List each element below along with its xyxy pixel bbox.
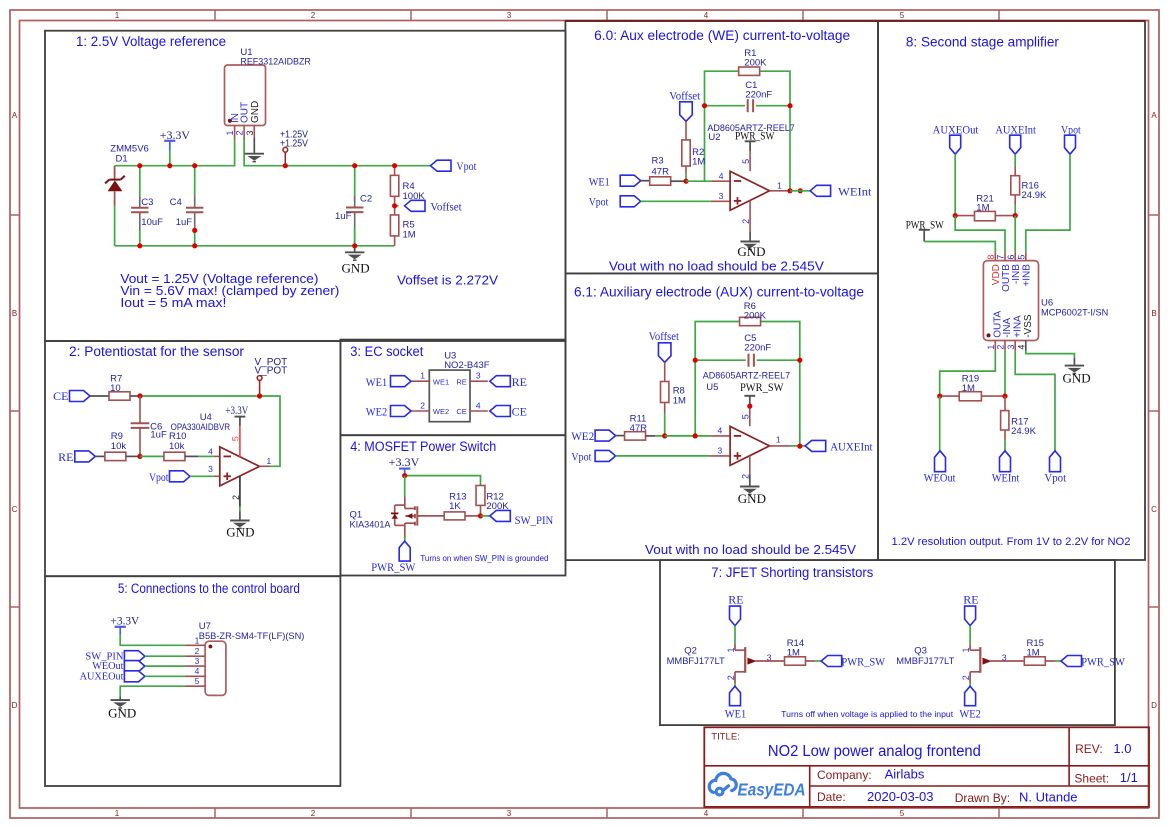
svg-text:C: C (12, 505, 18, 514)
net flag WEOut section5 (124, 661, 144, 672)
net flag SW_PIN section5 (124, 651, 144, 662)
wire WE2 to R11 (616, 435, 625, 437)
svg-text:220nF: 220nF (745, 90, 772, 101)
net flag PWR_SW 15 (1061, 656, 1082, 667)
svg-text:Voffset: Voffset (649, 329, 680, 343)
net flag AUXEInt section8 (1010, 135, 1021, 154)
title block column divider REV (1068, 727, 1070, 786)
svg-text:Vpot: Vpot (149, 470, 169, 484)
svg-text:+INA: +INA (1012, 315, 1023, 338)
svg-text:PWR_SW: PWR_SW (740, 380, 784, 394)
svg-text:4: 4 (719, 171, 724, 181)
net flag RE (75, 451, 96, 462)
svg-text:MMBFJ177LT: MMBFJ177LT (896, 656, 954, 667)
svg-text:Vpot: Vpot (1061, 123, 1081, 137)
svg-text:3: 3 (245, 130, 255, 135)
U3 pin 2 stub (411, 410, 429, 412)
svg-text:-INB: -INB (1011, 264, 1022, 284)
U4 output pin 1 (260, 465, 271, 467)
resistor 1M (785, 657, 806, 665)
svg-text:1.0: 1.0 (1113, 741, 1131, 756)
wire Vpot to op-amp pin3 (641, 200, 711, 202)
svg-text:+3.3V: +3.3V (225, 405, 248, 417)
U6 top pin stubs (994, 252, 996, 260)
net flag RE 15 (965, 606, 976, 626)
wire AUXEOut down (954, 154, 956, 215)
net flag Vpot section 6.1 (595, 450, 616, 461)
connector U7 body (205, 641, 226, 695)
svg-text:47R: 47R (630, 423, 648, 434)
svg-text:D: D (12, 701, 18, 710)
svg-text:1/1: 1/1 (1120, 770, 1138, 785)
svg-text:2: 2 (996, 345, 1006, 350)
resistor R7 10 (109, 392, 130, 400)
svg-text:1: 1 (726, 647, 736, 652)
svg-text:Vpot: Vpot (571, 449, 592, 463)
svg-text:N. Utande: N. Utande (1019, 789, 1078, 804)
wire bottom rail (115, 245, 395, 247)
MOSFET Q1 KIA3401A (404, 497, 406, 509)
svg-text:RE: RE (456, 377, 466, 386)
svg-text:Iout = 5 mA max!: Iout = 5 mA max! (120, 295, 226, 310)
resistor R6 200K (740, 317, 761, 325)
svg-text:WE1: WE1 (366, 375, 387, 389)
svg-text:CE: CE (512, 405, 527, 419)
wire +3.3V to R12 (405, 476, 481, 486)
wire +3.3V down to Q1 drain (404, 476, 406, 497)
JFET gate arrow (983, 658, 992, 665)
svg-text:GND: GND (738, 491, 766, 506)
net flag Vpot section 6.0 (620, 196, 641, 207)
op-amp U2 AD8605 triangle (730, 171, 769, 210)
feedback wire C5 (695, 359, 746, 361)
svg-text:24.9K: 24.9K (1011, 426, 1036, 437)
svg-text:B: B (1151, 309, 1156, 318)
svg-text:1: 1 (267, 456, 272, 466)
wire junction to op-amp pin4 (686, 180, 711, 182)
svg-text:24.9K: 24.9K (1022, 190, 1047, 201)
title block outline (704, 727, 1149, 807)
title block logo cell divider (809, 766, 811, 807)
svg-text:6: 6 (1006, 255, 1016, 260)
svg-text:1: 1 (225, 130, 235, 135)
svg-text:WE1: WE1 (589, 174, 610, 188)
svg-text:1M: 1M (692, 157, 705, 168)
svg-text:10k: 10k (169, 441, 185, 452)
wire resistor to PWR_SW flag (1045, 660, 1055, 662)
svg-text:2020-03-03: 2020-03-03 (867, 789, 934, 804)
svg-text:Sheet:: Sheet: (1074, 771, 1109, 785)
title block row divider 2 (810, 785, 1149, 787)
wire top rail right segment to Vpot (244, 139, 430, 166)
svg-text:3: 3 (718, 445, 723, 455)
resistor R19 1M (940, 395, 960, 397)
wire top net to feedback corner (140, 396, 280, 466)
svg-text:1: 1 (776, 434, 781, 444)
svg-text:REV:: REV: (1075, 742, 1103, 756)
feedback wire R1 top (705, 71, 739, 106)
svg-text:6.0: Aux electrode (WE) curren: 6.0: Aux electrode (WE) current-to-volta… (594, 28, 850, 43)
svg-text:4: MOSFET Power Switch: 4: MOSFET Power Switch (350, 439, 496, 454)
Q1 body diode (391, 512, 398, 514)
svg-text:Voffset: Voffset (430, 200, 462, 214)
svg-text:3: 3 (719, 191, 724, 201)
svg-text:Turns on when SW_PIN is ground: Turns on when SW_PIN is grounded (420, 554, 548, 563)
resistor R21 1M (955, 215, 974, 217)
capacitor C3 10uF (139, 196, 141, 208)
resistor R2 1M (685, 121, 687, 140)
U1 pin 2 OUT stub (243, 126, 245, 140)
svg-text:NO2-B43F: NO2-B43F (444, 360, 490, 371)
svg-text:U2: U2 (708, 132, 720, 143)
svg-text:8: 8 (986, 255, 996, 260)
resistor R10 10k (164, 452, 185, 460)
svg-text:2: 2 (726, 675, 736, 680)
section box 8: Second stage amplifier (878, 21, 1145, 560)
svg-text:5: 5 (1017, 255, 1027, 260)
capacitor C4 1uF (194, 196, 196, 208)
svg-text:3: EC socket: 3: EC socket (350, 344, 423, 359)
resistor R13 1K (444, 512, 465, 520)
svg-text:A: A (1151, 111, 1157, 120)
svg-text:1: 1 (420, 371, 425, 381)
wire zener branch bottom (114, 201, 116, 246)
svg-text:47R: 47R (652, 167, 670, 178)
wire source to WE flag (734, 683, 736, 686)
section box 6.1 (565, 273, 878, 560)
U3 pin 4 stub (470, 410, 488, 412)
zener diode D1 ZMM5V6 (114, 166, 116, 180)
wire AUXEOut to pin4 (145, 675, 186, 677)
net flag Vpot section2 (170, 471, 191, 482)
svg-text:5: 5 (741, 414, 751, 419)
resistor R5 1M (394, 206, 396, 215)
U2 output pin 1 (770, 190, 791, 192)
resistor R17 24.9K (1004, 396, 1006, 411)
feedback wire C1 (705, 105, 746, 107)
svg-text:R3: R3 (652, 156, 664, 167)
junction dot V_POT (257, 393, 262, 398)
svg-text:GND: GND (737, 244, 765, 259)
net flag PWR_SW 14 (821, 656, 842, 667)
svg-text:U5: U5 (706, 382, 718, 393)
svg-text:7: 7 (996, 255, 1006, 260)
svg-text:1: 1 (777, 180, 782, 190)
junction dot R21 left (953, 213, 958, 218)
net flag WEOut section8 (935, 451, 946, 472)
svg-text:5: 5 (195, 676, 200, 686)
svg-text:1M: 1M (962, 383, 975, 394)
net flag Vpot section1 (431, 160, 452, 171)
U2 pin 2 to ground (749, 201, 751, 232)
svg-text:D1: D1 (116, 153, 128, 164)
resistor R8 1M (664, 362, 666, 381)
section box 2: Potentiostat (45, 341, 340, 576)
svg-text:1uF: 1uF (176, 217, 193, 228)
svg-text:C3: C3 (141, 197, 153, 208)
wire -INA down (1004, 351, 1006, 396)
svg-text:5: 5 (231, 436, 241, 441)
U5 pin 2 to ground (749, 456, 751, 475)
junction dots C5 wire (693, 358, 698, 363)
resistor 1M (1024, 657, 1045, 665)
wire to Voffset flag (395, 205, 399, 207)
svg-text:RE: RE (728, 593, 743, 607)
capacitor C6 1uF (139, 396, 141, 423)
svg-text:3: 3 (195, 656, 200, 666)
U4 pin 5 wire red (239, 426, 241, 456)
svg-text:2: 2 (311, 11, 316, 20)
svg-text:3: 3 (208, 464, 213, 474)
svg-text:1M: 1M (787, 647, 800, 658)
feedback wire R6 top (695, 322, 739, 361)
svg-text:PWR_SW: PWR_SW (1081, 654, 1125, 668)
svg-text:4: 4 (718, 426, 723, 436)
net flag PWR_SW section4 (399, 541, 410, 561)
svg-text:+3.3V: +3.3V (160, 128, 191, 142)
title block row divider 1 (704, 765, 1149, 767)
svg-text:1: 1 (115, 11, 120, 20)
wire junction to pin4 6.1 (665, 435, 711, 437)
svg-text:5: Connections to the control: 5: Connections to the control board (118, 581, 300, 596)
ground symbol bottom rail (354, 246, 356, 253)
wire +3.3V to pin1 (120, 635, 185, 646)
svg-text:1: 1 (195, 635, 200, 645)
U1 pin3 gnd wire (253, 138, 255, 154)
svg-text:8: Second stage amplifier: 8: Second stage amplifier (906, 35, 1059, 50)
svg-text:7: JFET Shorting transistors: 7: JFET Shorting transistors (711, 565, 873, 580)
wire to SW_PIN flag (481, 515, 490, 517)
feedback wire right vertical (789, 106, 791, 191)
U3 pin 1 stub (411, 380, 429, 382)
net flag WE1 section 6.0 (620, 175, 641, 186)
svg-text:Company:: Company: (817, 768, 872, 782)
svg-text:C2: C2 (360, 194, 372, 205)
svg-text:Vout with no load should be 2.: Vout with no load should be 2.545V (609, 259, 824, 274)
svg-text:Vpot: Vpot (456, 159, 477, 173)
U4 pin 2 wire to ground (239, 476, 241, 507)
svg-text:C4: C4 (170, 197, 182, 208)
svg-text:PWR_SW: PWR_SW (841, 654, 885, 668)
junction dot Voffset node (392, 203, 397, 208)
svg-text:Turns off when voltage is appl: Turns off when voltage is applied to the… (781, 710, 954, 719)
svg-text:Voffset is 2.272V: Voffset is 2.272V (397, 273, 498, 288)
svg-text:TITLE:: TITLE: (711, 731, 740, 742)
voltage regulator U1 REF3312AIDBZR (225, 65, 266, 126)
net flag WEInt section8 (1000, 451, 1011, 472)
resistor R1 200K (739, 67, 760, 75)
U7 pin stubs (186, 644, 206, 646)
svg-text:RE: RE (58, 450, 73, 464)
svg-text:AUXEOut: AUXEOut (933, 123, 979, 137)
svg-text:+3.3V: +3.3V (389, 457, 421, 469)
svg-text:CE: CE (53, 389, 68, 403)
EasyEDA logo cloud (709, 773, 736, 795)
svg-text:RE: RE (512, 375, 527, 389)
dark overlay of inner frame over boxes 6.0 and 8 (565, 20, 1145, 22)
svg-text:1M: 1M (403, 229, 416, 240)
wire RE to drain (969, 626, 971, 645)
wire R7 to junction (130, 395, 140, 397)
U4 plus sign (224, 475, 232, 477)
svg-text:CE: CE (456, 407, 466, 416)
section box 4: MOSFET Power Switch (340, 435, 565, 575)
svg-text:REF3312AIDBZR: REF3312AIDBZR (240, 57, 311, 68)
wire Vpot to pin3 6.1 (616, 455, 711, 457)
net flag AUXEOut section5 (124, 671, 144, 682)
section box 6.0 (565, 21, 878, 273)
svg-text:1K: 1K (449, 501, 461, 512)
capacitor C1 220nF (747, 99, 749, 112)
junction dot output 6.1 (797, 444, 802, 449)
net flag WE2 section3 (391, 406, 412, 417)
net flag Voffset section 6.0 (680, 102, 693, 122)
svg-text:1M: 1M (976, 203, 989, 214)
feedback wire right vertical 6.1 (799, 360, 801, 446)
net flag CE section3 (490, 406, 511, 417)
Q1 gate wire to R13 (417, 515, 444, 517)
op-amp chip U6 MCP6002T-I/SN (983, 261, 1038, 341)
ground symbol section5 (111, 699, 130, 701)
section box 1: 2.5V Voltage reference (45, 31, 566, 341)
svg-text:A: A (12, 111, 18, 120)
wire PWR_SW to VDD (924, 242, 995, 253)
svg-text:3: 3 (507, 809, 512, 818)
feedback wire left vertical (704, 106, 706, 182)
svg-text:2: 2 (420, 400, 425, 410)
net flag RE section3 (490, 376, 511, 387)
junction dot feedback node 6.1 (693, 433, 698, 438)
net flag Voffset section 6.1 (658, 343, 671, 363)
feedback wire left vertical 6.1 (694, 360, 696, 436)
net flag Vpot top section8 (1065, 135, 1076, 154)
net flag WE2 section7 (965, 686, 976, 706)
svg-text:C: C (1151, 505, 1157, 514)
svg-text:3: 3 (1006, 345, 1016, 350)
U5 output pin 1 (770, 445, 791, 447)
svg-text:WE2: WE2 (571, 429, 594, 443)
wire ground to pin5 (120, 686, 185, 696)
junction dot C4 lead (192, 228, 197, 233)
svg-text:WE2: WE2 (366, 405, 387, 419)
svg-text:3: 3 (767, 653, 772, 663)
wire -VSS to ground (1026, 351, 1075, 358)
svg-text:2: 2 (195, 646, 200, 656)
svg-text:2: 2 (741, 474, 751, 479)
svg-text:1: 1 (115, 809, 120, 818)
capacitor C2 1uF (354, 166, 356, 201)
svg-text:4: 4 (208, 446, 213, 456)
wire R3 to junction (671, 180, 686, 182)
resistor R9 10k (105, 452, 126, 460)
svg-text:2: 2 (311, 809, 316, 818)
ground symbol U4 (230, 520, 249, 522)
wire SW_PIN to pin2 (145, 655, 186, 657)
wire output to WEInt (790, 190, 810, 192)
svg-text:3: 3 (476, 371, 481, 381)
svg-text:WEInt: WEInt (838, 184, 872, 198)
svg-text:3: 3 (507, 11, 512, 20)
U4 minus sign (224, 455, 232, 457)
svg-text:1: 1 (961, 647, 971, 652)
junction dots C1 wire (702, 103, 707, 108)
svg-text:WE1: WE1 (433, 377, 449, 386)
wire +INA to Vpot (1015, 351, 1055, 451)
svg-text:MCP6002T-I/SN: MCP6002T-I/SN (1041, 308, 1108, 319)
wire R10 to op-amp pin4 (185, 455, 198, 457)
svg-text:1uF: 1uF (335, 211, 352, 222)
wire RE to drain (734, 626, 736, 645)
resistor R16 24.9K (1014, 167, 1016, 176)
svg-text:5: 5 (741, 159, 751, 164)
svg-text:2: 2 (741, 219, 751, 224)
resistor R12 200K (476, 486, 485, 506)
svg-text:200K: 200K (744, 311, 767, 322)
svg-text:MMBFJ177LT: MMBFJ177LT (667, 656, 725, 667)
resistor R11 47R (625, 432, 646, 440)
power symbol +3.3V section 1 (164, 140, 175, 142)
svg-text:1.2V resolution output. From 1: 1.2V resolution output. From 1V to 2.2V … (892, 536, 1131, 548)
net flag WE1 section3 (391, 376, 412, 387)
wire WE1 to R3 (641, 180, 650, 182)
svg-text:AUXEInt: AUXEInt (830, 439, 873, 453)
svg-text:GND: GND (108, 706, 136, 721)
svg-text:WE1: WE1 (725, 706, 747, 720)
wire source to WE flag (969, 683, 971, 686)
junction dot +3.3V (402, 473, 407, 478)
svg-text:1: 1 (986, 345, 996, 350)
svg-text:2: Potentiostat for the sensor: 2: Potentiostat for the sensor (69, 344, 245, 359)
wire -INB net (1014, 216, 1016, 253)
svg-text:OPA330AIDBVR: OPA330AIDBVR (171, 422, 231, 433)
wire junction to R10 (140, 455, 164, 457)
svg-text:10: 10 (110, 383, 121, 394)
ground symbol U5 (740, 486, 759, 488)
junction dot R19 right (1002, 394, 1007, 399)
Q1 source wire (404, 525, 406, 536)
U6 bottom pin stubs (994, 341, 996, 351)
svg-text:GND: GND (250, 101, 261, 123)
svg-text:GND: GND (226, 525, 254, 540)
svg-text:KIA3401A: KIA3401A (350, 520, 392, 531)
svg-text:+INB: +INB (1022, 264, 1033, 287)
svg-text:10k: 10k (111, 441, 127, 452)
svg-text:4: 4 (704, 809, 709, 818)
wire Vpot to +INB (1026, 154, 1070, 252)
junction dot R21 right (1013, 213, 1018, 218)
wire WEOut to pin3 (145, 665, 186, 667)
svg-text:Q2: Q2 (684, 646, 697, 657)
svg-text:1: 2.5V Voltage reference: 1: 2.5V Voltage reference (76, 34, 226, 49)
svg-text:Date:: Date: (817, 790, 846, 804)
op-amp U5 AD8605 triangle (730, 426, 769, 465)
op-amp U4 OPA330AIDBVR triangle (220, 447, 260, 486)
wire resistor to PWR_SW flag (806, 660, 816, 662)
ground symbol U2 (740, 241, 759, 243)
svg-text:WEInt: WEInt (992, 471, 1020, 485)
net flag Vpot bottom section8 (1050, 451, 1061, 472)
svg-text:4: 4 (476, 400, 481, 410)
svg-text:RE: RE (963, 593, 978, 607)
net flag WEInt (810, 185, 831, 196)
svg-text:1uF: 1uF (150, 430, 167, 441)
JFET transistor (734, 644, 736, 650)
svg-text:2: 2 (235, 130, 245, 135)
svg-text:Airlabs: Airlabs (885, 766, 925, 781)
net flag AUXEInt (805, 440, 826, 451)
resistor R3 47R (650, 177, 671, 185)
svg-text:GND: GND (1063, 371, 1091, 386)
